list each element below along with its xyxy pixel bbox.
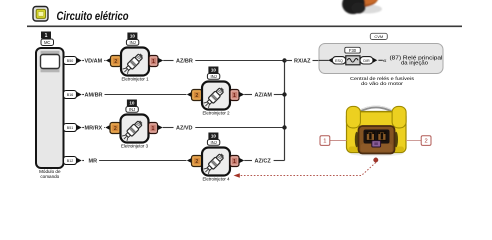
pin B16 (module) bbox=[64, 91, 82, 99]
svg-text:MR: MR bbox=[89, 159, 98, 165]
header icon (yellow key symbol) bbox=[33, 7, 48, 22]
label 10 / INJ (Eletroinjetor 4) bbox=[207, 133, 219, 146]
wire AZ/AM (Eletroinjetor 2 to bus) bbox=[239, 92, 285, 99]
module: Modulo de comando bbox=[36, 48, 64, 179]
svg-text:Eletroinjetor 4: Eletroinjetor 4 bbox=[203, 177, 230, 182]
bus wire (common feed) bbox=[284, 61, 286, 161]
wire AZ/BR (Eletroinjetor 1 to bus) bbox=[158, 58, 285, 65]
pin B50 (module) bbox=[64, 57, 82, 65]
svg-text:«: « bbox=[383, 57, 387, 64]
svg-text:comando: comando bbox=[40, 174, 59, 179]
fuse F30 element bbox=[346, 56, 360, 65]
text (87) Rele principal da injecao bbox=[383, 55, 443, 66]
connector pin 2 (Eletroinjetor 3) bbox=[110, 123, 121, 134]
svg-text:10: 10 bbox=[211, 68, 217, 73]
wire AZ/VD (Eletroinjetor 3 to bus) bbox=[158, 125, 285, 132]
svg-text:B16: B16 bbox=[67, 93, 73, 97]
connector pin 1 (Eletroinjetor 1) bbox=[149, 56, 158, 67]
svg-text:Eletroinjetor 3: Eletroinjetor 3 bbox=[121, 144, 148, 149]
label 1 / MC (above control module) bbox=[41, 32, 54, 46]
svg-text:DIR: DIR bbox=[363, 59, 370, 63]
title underline bbox=[27, 25, 462, 27]
svg-text:Circuito elétrico: Circuito elétrico bbox=[57, 9, 129, 23]
terminal DIR bbox=[360, 57, 377, 64]
svg-text:10: 10 bbox=[129, 101, 135, 106]
pin B51 (module) bbox=[64, 124, 82, 132]
connector pin 2 (Eletroinjetor 2) bbox=[192, 90, 203, 101]
title: Circuito eletrico bbox=[57, 9, 129, 23]
label F30 (fuse) bbox=[345, 47, 361, 53]
label 10 / INJ (Eletroinjetor 1) bbox=[126, 33, 138, 46]
svg-text:10: 10 bbox=[130, 34, 136, 39]
wire AZ/CZ (Eletroinjetor 4 to bus) bbox=[239, 158, 285, 165]
svg-text:Eletroinjetor 2: Eletroinjetor 2 bbox=[203, 111, 230, 116]
wire MR (pin B12 to Eletroinjetor 4) bbox=[82, 158, 192, 165]
label 10 / INJ (Eletroinjetor 2) bbox=[207, 67, 219, 80]
pin B12 (module) bbox=[64, 157, 82, 165]
svg-text:CVM: CVM bbox=[374, 34, 383, 39]
dashed pointer to Eletroinjetor 4 bbox=[234, 163, 376, 178]
svg-text:F30: F30 bbox=[349, 48, 357, 53]
svg-text:do vão do motor: do vão do motor bbox=[361, 81, 403, 87]
wire MR/RX (pin B51 to Eletroinjetor 3) bbox=[82, 125, 110, 132]
node: connector reference dot bbox=[374, 158, 378, 162]
injector box: Eletroinjetor 3 bbox=[121, 115, 149, 149]
connector pin 1 (Eletroinjetor 3) bbox=[149, 123, 158, 134]
svg-text:INJ: INJ bbox=[129, 40, 135, 45]
svg-text:INJ: INJ bbox=[129, 107, 135, 112]
svg-text:B12: B12 bbox=[67, 159, 73, 163]
svg-text:1: 1 bbox=[323, 139, 326, 145]
svg-text:Módulo de: Módulo de bbox=[39, 169, 61, 174]
svg-text:da injeção: da injeção bbox=[401, 61, 428, 67]
photo fragment: injector part (top-right corner) bbox=[339, 0, 382, 17]
label 10 / INJ (Eletroinjetor 3) bbox=[126, 100, 138, 113]
terminal ESQ bbox=[319, 57, 346, 64]
svg-text:AZ/AM: AZ/AM bbox=[255, 93, 273, 99]
svg-text:MC: MC bbox=[44, 40, 51, 45]
relay/fuse central box bbox=[319, 44, 443, 74]
wire AM/BR (pin B16 to Eletroinjetor 2) bbox=[82, 92, 192, 99]
junction node (row 2) bbox=[282, 92, 286, 96]
wire to terminal 87 bbox=[378, 59, 382, 61]
svg-text:2: 2 bbox=[424, 139, 427, 145]
pin label 2 (connector) bbox=[406, 136, 431, 146]
label CVM (central) bbox=[370, 33, 387, 39]
svg-text:10: 10 bbox=[211, 134, 217, 139]
junction node (row 3) bbox=[282, 125, 286, 129]
injector box: Eletroinjetor 1 bbox=[121, 48, 149, 82]
wire RX/AZ (bus to relay) bbox=[285, 59, 328, 65]
svg-text:INJ: INJ bbox=[210, 140, 216, 145]
pin label 1 (connector) bbox=[320, 136, 347, 146]
svg-text:B51: B51 bbox=[67, 126, 73, 130]
svg-text:AM/BR: AM/BR bbox=[85, 93, 103, 99]
svg-text:B50: B50 bbox=[67, 59, 73, 63]
svg-text:VD/AM: VD/AM bbox=[85, 59, 103, 65]
connector pin 2 (Eletroinjetor 4) bbox=[192, 156, 203, 167]
connector illustration (2-pin injector plug) bbox=[346, 106, 406, 156]
svg-text:Eletroinjetor 1: Eletroinjetor 1 bbox=[122, 77, 149, 82]
svg-text:1: 1 bbox=[45, 33, 48, 39]
svg-text:ESQ: ESQ bbox=[335, 59, 343, 63]
injector box: Eletroinjetor 2 bbox=[202, 82, 230, 116]
svg-text:INJ: INJ bbox=[210, 74, 216, 79]
connector pin 1 (Eletroinjetor 4) bbox=[230, 156, 239, 167]
wire VD/AM (pin B50 to Eletroinjetor 1) bbox=[82, 58, 111, 65]
svg-text:MR/RX: MR/RX bbox=[85, 126, 103, 132]
injector box: Eletroinjetor 4 bbox=[202, 148, 230, 182]
junction node (row 1) bbox=[282, 58, 286, 62]
caption: Central de reles e fusiveis do vao do motor bbox=[350, 76, 415, 87]
connector pin 2 (Eletroinjetor 1) bbox=[111, 56, 122, 67]
connector pin 1 (Eletroinjetor 2) bbox=[230, 90, 239, 101]
svg-text:AZ/CZ: AZ/CZ bbox=[255, 159, 272, 165]
svg-text:AZ/BR: AZ/BR bbox=[176, 59, 193, 65]
svg-text:RX/AZ: RX/AZ bbox=[294, 59, 311, 65]
svg-text:AZ/VD: AZ/VD bbox=[176, 126, 193, 132]
